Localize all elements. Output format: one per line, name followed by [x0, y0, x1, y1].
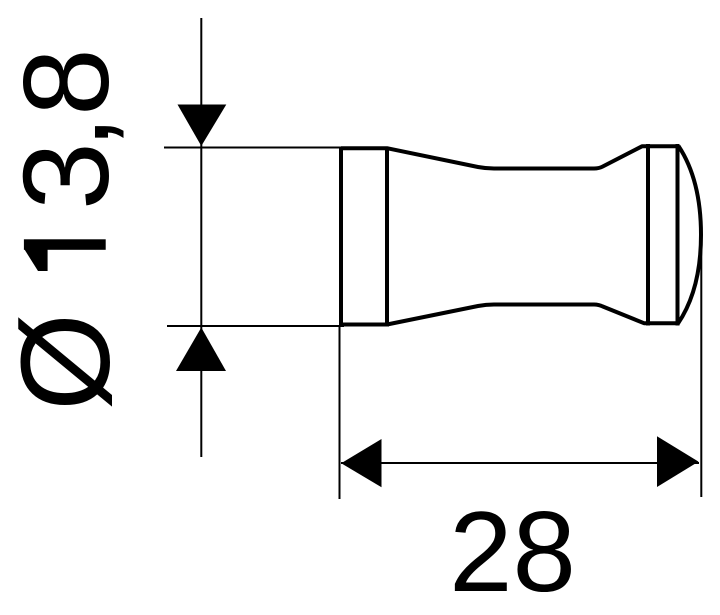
- svg-text:28: 28: [449, 489, 576, 615]
- svg-text:8: 8: [0, 48, 134, 116]
- svg-text:Ø: Ø: [0, 313, 136, 411]
- svg-text:3: 3: [0, 142, 134, 210]
- svg-text:,: ,: [0, 115, 134, 149]
